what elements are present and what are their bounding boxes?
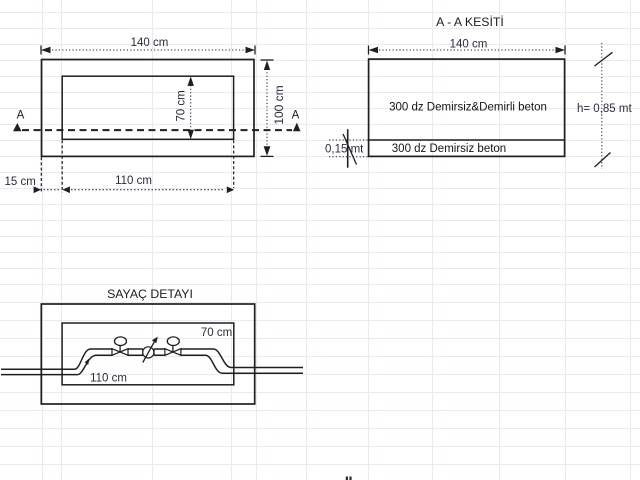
svg-text:70 cm: 70 cm (201, 327, 232, 339)
svg-text:SAYAÇ DETAYI: SAYAÇ DETAYI (107, 287, 193, 301)
svg-text:A - A KESİTİ: A - A KESİTİ (436, 15, 504, 29)
svg-text:300 dz Demirsiz&Demirli beton: 300 dz Demirsiz&Demirli beton (389, 102, 547, 114)
svg-text:h= 0,85 mt: h= 0,85 mt (577, 103, 632, 115)
svg-text:0,15 mt: 0,15 mt (325, 144, 364, 156)
svg-text:300 dz Demirsiz beton: 300 dz Demirsiz beton (392, 143, 506, 155)
svg-text:100 cm: 100 cm (272, 85, 286, 124)
svg-text:70 cm: 70 cm (175, 90, 187, 121)
svg-text:A: A (292, 109, 300, 121)
svg-text:140 cm: 140 cm (450, 39, 488, 51)
svg-text:A: A (17, 109, 25, 121)
svg-text:110 cm: 110 cm (115, 175, 152, 187)
svg-text:140 cm: 140 cm (131, 37, 169, 49)
svg-text:15 cm: 15 cm (5, 176, 36, 188)
svg-text:110 cm: 110 cm (90, 373, 127, 385)
